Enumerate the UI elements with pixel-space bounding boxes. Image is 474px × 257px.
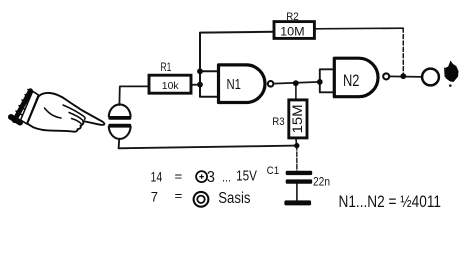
svg-text:R3: R3: [272, 116, 284, 128]
svg-text:...: ...: [222, 170, 231, 185]
svg-text:=: =: [175, 188, 183, 203]
svg-text:N2: N2: [343, 71, 360, 90]
svg-text:7: 7: [151, 189, 158, 205]
svg-text:3: 3: [207, 169, 215, 186]
svg-text:N1: N1: [226, 76, 241, 93]
svg-text:22n: 22n: [313, 174, 330, 188]
svg-text:=: =: [175, 168, 183, 183]
svg-text:15V: 15V: [236, 168, 257, 184]
svg-text:R1: R1: [161, 62, 172, 74]
svg-text:14: 14: [151, 168, 163, 184]
svg-text:R2: R2: [286, 11, 298, 23]
svg-text:C1: C1: [267, 165, 280, 177]
svg-text:10k: 10k: [162, 81, 180, 92]
svg-text:N1...N2 = ½4011: N1...N2 = ½4011: [339, 193, 442, 211]
svg-text:15M: 15M: [290, 104, 305, 133]
svg-text:Sasis: Sasis: [218, 190, 251, 207]
svg-text:10M: 10M: [280, 24, 305, 38]
